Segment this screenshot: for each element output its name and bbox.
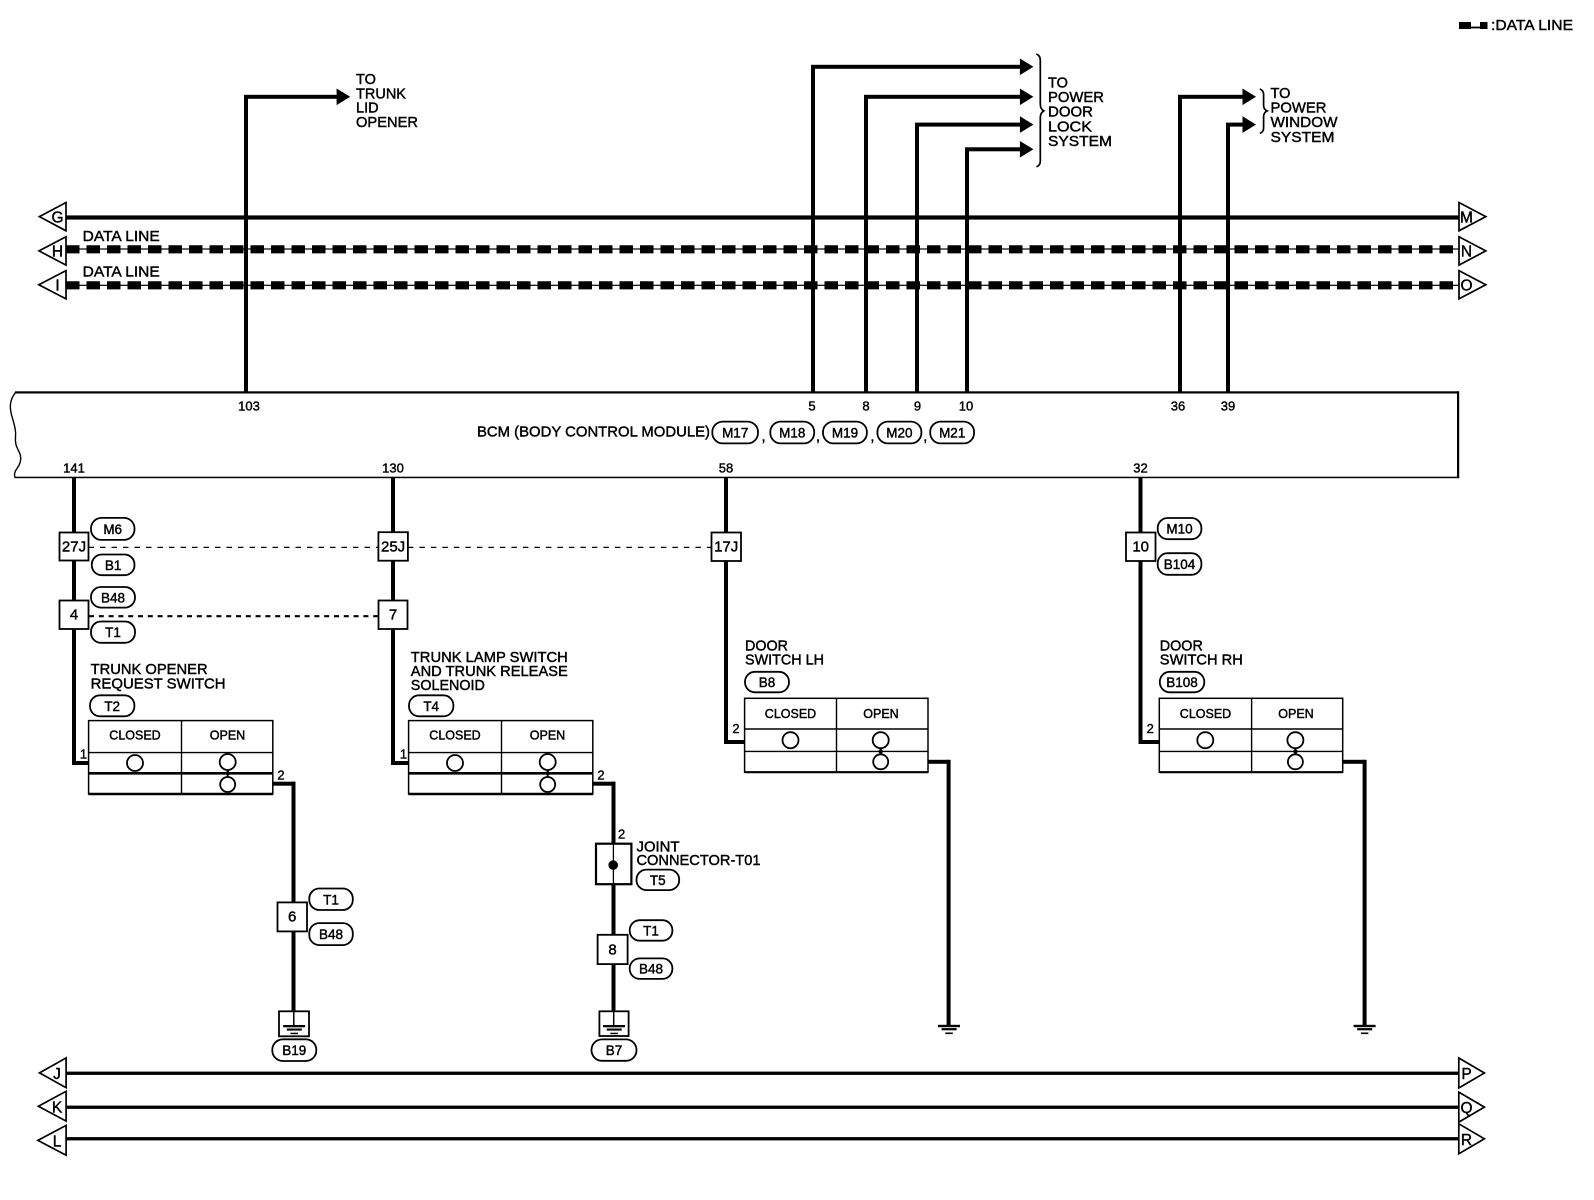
svg-text:1: 1 — [80, 747, 87, 762]
svg-text:B48: B48 — [639, 962, 663, 977]
svg-text:BCM (BODY CONTROL MODULE): BCM (BODY CONTROL MODULE) — [477, 425, 710, 441]
connector M17 — [712, 422, 758, 444]
svg-text:B7: B7 — [606, 1043, 623, 1058]
svg-text:T1: T1 — [105, 625, 121, 640]
svg-text:M19: M19 — [832, 425, 858, 440]
svg-text:M17: M17 — [722, 425, 748, 440]
wire: BCM pin 32 down — [1139, 478, 1143, 744]
svg-text:T2: T2 — [104, 699, 120, 714]
connector M18 — [770, 422, 814, 444]
svg-text:2: 2 — [732, 721, 739, 736]
wire: bus I data line dashed — [66, 285, 1459, 286]
svg-text:J: J — [53, 1066, 61, 1083]
switch contact circles (T4 open) — [540, 754, 556, 792]
svg-text:8: 8 — [862, 399, 869, 414]
svg-text:DATA LINE: DATA LINE — [83, 265, 160, 281]
wire: into T4 pin 1 — [391, 761, 409, 765]
connector T1 — [91, 622, 135, 643]
trunk opener request switch table — [89, 721, 273, 794]
svg-text:10: 10 — [1132, 539, 1149, 556]
connector M6 — [91, 518, 135, 540]
connector T5 — [637, 870, 680, 891]
svg-text:B48: B48 — [101, 590, 125, 605]
connector T2 — [90, 695, 134, 716]
svg-text:CLOSED: CLOSED — [109, 729, 160, 743]
svg-text:G: G — [51, 210, 63, 227]
svg-text:6: 6 — [288, 909, 296, 926]
switch contact circles (LH open) — [873, 732, 889, 769]
svg-text:17J: 17J — [714, 539, 738, 556]
joint connector T01 box — [596, 844, 631, 885]
node K: left arrow connector — [38, 1091, 66, 1121]
svg-text:M21: M21 — [939, 425, 965, 440]
dashed link 27J-25J — [89, 546, 379, 548]
connector M19 — [823, 422, 867, 444]
legend: data line symbol — [1459, 18, 1573, 34]
wire: 6 down to ground B19 — [292, 931, 296, 1011]
connector B108 — [1160, 672, 1205, 693]
svg-text:M: M — [1460, 210, 1473, 227]
wire: bus G horizontal solid — [66, 215, 1459, 219]
svg-text:REQUEST SWITCH: REQUEST SWITCH — [91, 677, 226, 693]
svg-text:SWITCH LH: SWITCH LH — [745, 652, 824, 668]
ground B7 — [599, 1011, 628, 1036]
svg-text:M18: M18 — [779, 425, 805, 440]
svg-text:B104: B104 — [1164, 557, 1196, 572]
svg-text:39: 39 — [1221, 399, 1235, 414]
ground (door switch LH) — [938, 1025, 960, 1034]
connector pin box 27J — [60, 533, 89, 561]
svg-text:8: 8 — [608, 941, 616, 958]
svg-text:M20: M20 — [886, 425, 912, 440]
svg-text:27J: 27J — [62, 539, 86, 556]
svg-text:OPEN: OPEN — [210, 729, 245, 743]
wire: RH out and down to ground — [1343, 760, 1367, 1025]
svg-text:OPEN: OPEN — [863, 707, 898, 721]
svg-text:4: 4 — [70, 607, 78, 624]
trunk lamp switch table — [409, 721, 593, 794]
svg-text:,: , — [870, 429, 874, 445]
svg-text:M10: M10 — [1166, 522, 1192, 537]
svg-text:T5: T5 — [650, 873, 666, 888]
wire: bus K horizontal — [66, 1106, 1459, 1109]
connector T1 (near 8) — [630, 920, 673, 941]
svg-text:10: 10 — [959, 399, 973, 414]
connector pin box 10 — [1126, 533, 1156, 562]
svg-text:R: R — [1461, 1132, 1472, 1149]
brace for power door lock group — [1036, 54, 1044, 167]
connector B104 — [1158, 553, 1202, 575]
wire: into LH pin 2 — [724, 740, 745, 744]
svg-text:H: H — [52, 244, 63, 261]
svg-text:SWITCH RH: SWITCH RH — [1160, 652, 1243, 668]
svg-text:N: N — [1461, 244, 1472, 261]
svg-text:103: 103 — [238, 399, 260, 414]
svg-text:32: 32 — [1133, 461, 1147, 476]
svg-text:CONNECTOR-T01: CONNECTOR-T01 — [637, 853, 761, 869]
wire: bus L horizontal — [66, 1137, 1459, 1140]
switch contact circle (RH closed) — [1197, 732, 1213, 748]
node P: right arrow connector — [1459, 1058, 1485, 1088]
wire: BCM pin 9 up to power door lock arrow — [915, 116, 1033, 392]
dashed link 25J-17J — [408, 546, 712, 548]
svg-text:B48: B48 — [319, 927, 343, 942]
svg-text:2: 2 — [597, 767, 604, 782]
wire: BCM pin 8 up to power door lock arrow — [864, 89, 1033, 393]
switch contact circle (T4 closed) — [447, 755, 463, 771]
svg-text:5: 5 — [808, 399, 815, 414]
switch contact circles (RH open) — [1287, 732, 1303, 769]
wire: bus J horizontal — [66, 1072, 1459, 1075]
node R: right arrow connector — [1459, 1124, 1485, 1154]
svg-text:,: , — [923, 429, 927, 445]
node N: right arrow connector — [1459, 237, 1486, 265]
wire: LH out and down to ground — [928, 760, 951, 1025]
node H: left arrow connector — [39, 237, 66, 265]
wire: BCM pin 103 up to trunk lid opener arrow — [244, 89, 350, 393]
svg-text:1: 1 — [400, 747, 407, 762]
wire: into RH pin 2 — [1139, 740, 1160, 744]
connector pin box 4 — [60, 601, 89, 630]
svg-text:2: 2 — [277, 767, 284, 782]
connector pin box 17J — [712, 533, 742, 562]
door switch LH table — [745, 698, 928, 772]
wire: BCM pin 58 down — [724, 478, 728, 744]
connector B1 — [92, 555, 135, 576]
connector B48 (near 8) — [630, 958, 673, 979]
svg-text:T4: T4 — [423, 699, 439, 714]
svg-text:B1: B1 — [105, 558, 122, 573]
svg-text:B19: B19 — [282, 1043, 306, 1058]
wire: joint connector down to 8 — [612, 884, 616, 935]
svg-text:,: , — [762, 429, 766, 445]
dashed link 4-7 — [89, 615, 379, 617]
connector pin box 7 — [379, 601, 408, 630]
svg-text:CLOSED: CLOSED — [429, 729, 480, 743]
svg-text:,: , — [816, 429, 820, 445]
door switch RH table — [1159, 698, 1342, 772]
wire: bus H data line dashed — [66, 248, 1459, 249]
svg-text:T1: T1 — [643, 923, 659, 938]
connector M10 — [1158, 518, 1202, 539]
connector B7 — [592, 1039, 637, 1060]
svg-text:CLOSED: CLOSED — [1180, 707, 1231, 721]
svg-text:SOLENOID: SOLENOID — [411, 678, 485, 694]
connector B48 — [91, 587, 135, 608]
connector B48 (near 6) — [309, 923, 353, 945]
svg-text:O: O — [1460, 278, 1472, 295]
wire: into T2 pin 1 — [72, 761, 89, 765]
connector pin box 6 — [278, 902, 308, 931]
svg-text:K: K — [52, 1099, 63, 1116]
svg-text:B108: B108 — [1166, 675, 1198, 690]
svg-text:OPEN: OPEN — [1278, 707, 1313, 721]
wire: BCM pin 141 down — [72, 478, 76, 765]
svg-text:36: 36 — [1171, 399, 1185, 414]
wire: BCM pin 10 up to power door lock arrow — [965, 141, 1033, 392]
svg-text:Q: Q — [1460, 1100, 1472, 1117]
wire: BCM pin 36 up to power window arrow — [1178, 89, 1256, 393]
svg-text:CLOSED: CLOSED — [765, 707, 816, 721]
brace for power window group — [1260, 89, 1267, 133]
svg-text::DATA LINE: :DATA LINE — [1491, 18, 1573, 34]
svg-text:T1: T1 — [323, 892, 339, 907]
node G: left arrow connector — [39, 203, 66, 231]
svg-text:141: 141 — [63, 461, 85, 476]
connector B19 — [272, 1039, 316, 1061]
switch contact circle (LH closed) — [783, 732, 799, 748]
node J: left arrow connector — [40, 1058, 67, 1088]
svg-text:2: 2 — [1147, 721, 1154, 736]
wire: BCM pin 39 up to power window arrow — [1226, 116, 1256, 392]
svg-text:I: I — [55, 278, 59, 295]
connector B8 — [745, 672, 789, 693]
connector pin box 25J — [378, 532, 408, 561]
node M: right arrow connector — [1459, 203, 1486, 231]
svg-text:L: L — [53, 1133, 62, 1150]
svg-text:9: 9 — [914, 399, 921, 414]
ground (door switch RH) — [1354, 1025, 1376, 1034]
wire: BCM pin 130 down — [391, 478, 395, 765]
connector M21 — [930, 422, 974, 444]
ground B19 — [279, 1011, 309, 1036]
svg-text:P: P — [1461, 1066, 1471, 1083]
svg-text:B8: B8 — [759, 675, 776, 690]
svg-text:2: 2 — [618, 827, 625, 842]
connector pin box 8 — [598, 935, 628, 964]
wire: BCM pin 5 up to power door lock arrow — [811, 59, 1033, 393]
node I: left arrow connector — [39, 271, 66, 299]
svg-text:7: 7 — [389, 607, 397, 624]
switch contact circles (T2 open) — [220, 754, 236, 792]
svg-text:25J: 25J — [381, 539, 405, 556]
wire: T2 pin 2 out and down to joint 6 — [273, 782, 296, 903]
connector T1 (near 6) — [309, 889, 353, 911]
wire: 8 down to ground B7 — [612, 964, 616, 1011]
node L: left arrow connector — [38, 1125, 66, 1155]
switch contact circle (T2 closed) — [127, 755, 143, 771]
svg-text:58: 58 — [719, 461, 733, 476]
BCM (Body Control Module) box — [10, 391, 1459, 478]
svg-text:DATA LINE: DATA LINE — [83, 229, 160, 245]
node O: right arrow connector — [1459, 271, 1486, 299]
svg-text:OPEN: OPEN — [530, 729, 565, 743]
svg-text:TRUNK OPENER: TRUNK OPENER — [91, 662, 208, 678]
node Q: right arrow connector — [1459, 1092, 1485, 1122]
svg-text:M6: M6 — [103, 522, 122, 537]
wire: T4 pin 2 out and down to joint connector — [593, 782, 616, 845]
connector T4 — [409, 695, 453, 716]
connector M20 — [877, 422, 921, 444]
svg-text:130: 130 — [382, 461, 404, 476]
